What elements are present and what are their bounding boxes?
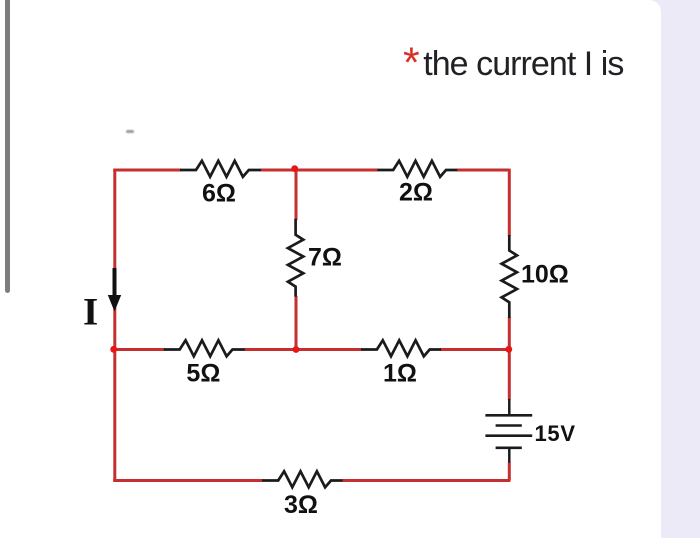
battery 15V (485, 399, 532, 463)
svg-text:7Ω: 7Ω (308, 244, 342, 272)
current arrow I (108, 268, 121, 312)
wire bottom right segment (342, 479, 510, 482)
wire top right segment (457, 169, 509, 172)
svg-text:2Ω: 2Ω (399, 179, 433, 207)
resistor 6 ohm (180, 161, 261, 177)
svg-text:I: I (83, 291, 98, 334)
resistor 3 ohm (262, 471, 342, 487)
junction node middle left (110, 346, 117, 353)
stray gray dash mark (126, 130, 134, 133)
resistor 7 ohm (vertical) (288, 219, 303, 297)
label I (83, 291, 98, 334)
wire middle horizontal left segment (113, 348, 165, 351)
browser scrollbar (5, 0, 10, 293)
resistor 1 ohm (361, 340, 441, 356)
wire bottom left segment (113, 479, 263, 482)
label 15V (535, 421, 576, 446)
svg-text:5Ω: 5Ω (186, 360, 220, 388)
resistor 2 ohm (377, 161, 457, 177)
label 10ohm (521, 261, 569, 289)
wire right vertical upper (508, 169, 511, 236)
label 7ohm (308, 244, 342, 272)
label 2ohm (399, 179, 433, 207)
resistor 10 ohm (vertical) (502, 235, 517, 318)
wire middle vertical lower (295, 296, 298, 351)
label 5ohm (186, 360, 220, 388)
wire top middle segment (261, 169, 378, 172)
wire middle horizontal right segment (440, 348, 510, 351)
junction node top middle (291, 165, 298, 172)
svg-text:1Ω: 1Ω (383, 360, 417, 388)
question title: * the current I is (403, 45, 623, 84)
wire left vertical (113, 170, 116, 481)
wire middle horizontal center segment (244, 348, 362, 351)
svg-text:6Ω: 6Ω (202, 180, 236, 208)
label 6ohm (202, 180, 236, 208)
wire middle vertical upper (295, 170, 298, 220)
svg-text:15V: 15V (535, 421, 576, 446)
junction node middle right (505, 346, 512, 353)
svg-text:10Ω: 10Ω (521, 261, 569, 289)
resistor 5 ohm (164, 340, 245, 356)
wire top left segment (113, 169, 181, 172)
label 1ohm (383, 360, 417, 388)
label 3ohm (284, 491, 318, 519)
wire right vertical middle (508, 317, 511, 400)
wire right vertical lower (508, 463, 511, 481)
svg-text:3Ω: 3Ω (284, 491, 318, 519)
junction node middle center (293, 346, 300, 353)
